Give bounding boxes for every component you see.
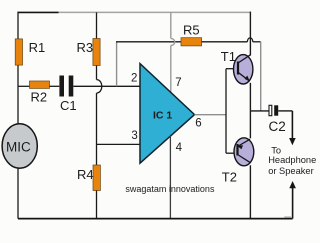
wire T2 base lead [226, 152, 238, 154]
wire pin 3 from R4 node [97, 143, 141, 145]
wire hop over T1 collector line [247, 38, 252, 42]
wire T2 collector to bottom rail [249, 165, 251, 218]
wire gray notch near bottom right [284, 216, 291, 218]
svg-text:or Speaker: or Speaker [268, 166, 313, 176]
microphone MIC [2, 124, 37, 168]
wire top rail gray segment [59, 11, 251, 13]
svg-text:R3: R3 [77, 40, 94, 55]
wire feedback down right of T1 [260, 42, 262, 111]
wire R5 left leg down to pin2 node [116, 42, 118, 87]
wire hop over pin2 wire [97, 80, 102, 94]
wire R3 top to rail [96, 12, 98, 38]
wire left rail lower [17, 168, 19, 219]
svg-text:2: 2 [131, 73, 137, 85]
wire R2 to C1 [50, 85, 60, 87]
svg-text:MIC: MIC [6, 140, 31, 155]
wire T1 base lead [226, 68, 238, 70]
op-amp IC1 triangle [140, 64, 195, 164]
resistor R2 [30, 81, 50, 88]
wire T1 collector from top rail [249, 12, 251, 56]
wire pin 7 to IC [170, 46, 172, 93]
capacitor C1 [59, 76, 64, 97]
capacitor C2 [269, 105, 272, 115]
wire output node to C2 [250, 110, 269, 112]
transistor T1 [234, 55, 253, 84]
wire left rail upper [17, 12, 19, 125]
wire T1 emitter to output node [249, 83, 251, 111]
wire hop exit to corner [253, 41, 261, 43]
wire R5 right to hop [202, 41, 248, 43]
svg-text:swagatam innovations: swagatam innovations [125, 184, 215, 194]
arrow up from bottom rail [289, 181, 296, 188]
wire C2 right [278, 110, 292, 112]
resistor R3 [93, 39, 100, 66]
svg-text:Headphone: Headphone [268, 155, 316, 165]
wire T2 emitter from output node [249, 111, 251, 138]
svg-text:3: 3 [131, 130, 137, 142]
svg-text:6: 6 [195, 117, 201, 129]
wire top rail black segment [18, 11, 59, 13]
svg-text:T2: T2 [222, 170, 237, 185]
wire pin 4 down to rail [169, 136, 171, 219]
wire R4 bottom to rail [96, 191, 98, 219]
svg-text:C1: C1 [60, 98, 77, 113]
svg-text:R2: R2 [31, 89, 48, 104]
wire R2 branch from left rail [18, 85, 30, 87]
resistor R1 [15, 39, 22, 65]
svg-text:T1: T1 [221, 49, 236, 64]
svg-text:4: 4 [176, 142, 183, 154]
wire R3 node down to pin3 junction [96, 93, 98, 165]
transistor T2 [234, 138, 254, 166]
wire hop of pin7 over R5 wire [171, 38, 175, 45]
svg-text:R1: R1 [29, 40, 46, 55]
svg-text:R5: R5 [183, 22, 200, 37]
wire pin 6 output [195, 114, 227, 116]
resistor R5 [181, 38, 202, 46]
resistor R4 [93, 165, 100, 191]
svg-text:7: 7 [175, 77, 181, 89]
wire R3 bottom [96, 66, 98, 80]
svg-text:C2: C2 [269, 119, 286, 134]
svg-text:To: To [271, 146, 281, 156]
arrow down to load [291, 111, 293, 139]
wire R5 left horizontal [116, 41, 181, 43]
wire C1 to pin 2 of IC [73, 85, 140, 87]
wire pin 7 upper gray [170, 12, 172, 38]
svg-text:R4: R4 [77, 167, 94, 182]
wire bottom rail [18, 218, 293, 220]
wire base bus vertical [225, 69, 227, 154]
svg-text:IC 1: IC 1 [153, 110, 172, 122]
